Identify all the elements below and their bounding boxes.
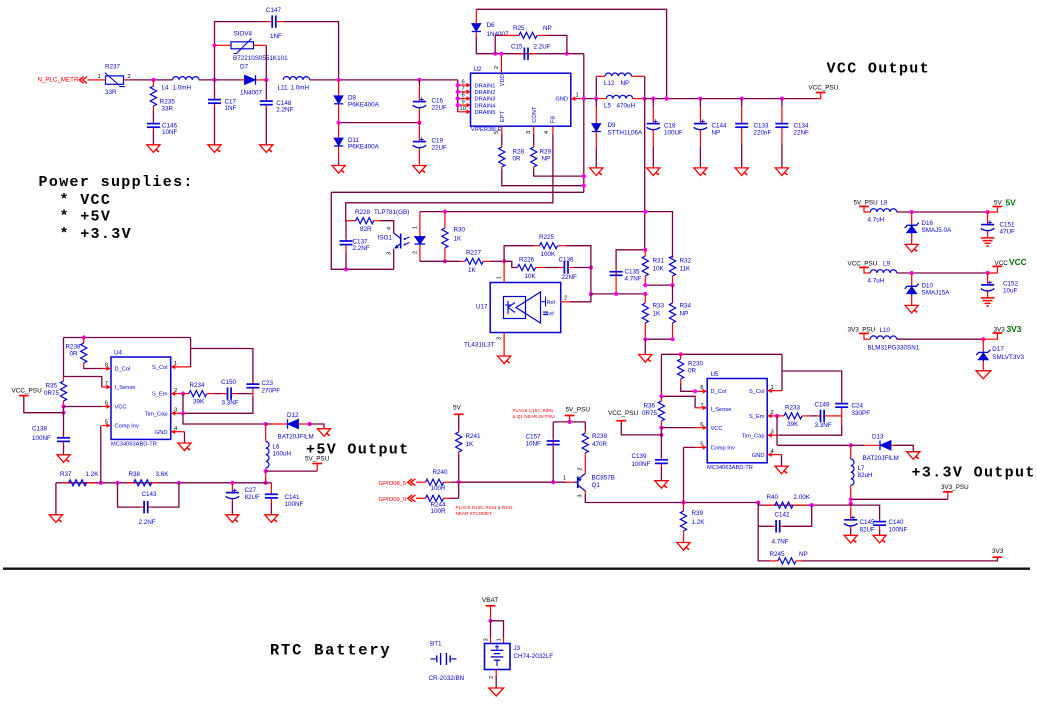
pin arrow S_Col: [171, 365, 175, 370]
capacitor C143: [139, 491, 158, 526]
svg-text:100R: 100R: [431, 508, 447, 515]
svg-text:C23: C23: [262, 380, 274, 387]
wire U5 pin stub: [695, 390, 707, 392]
capacitor C149: [815, 402, 832, 430]
ground (U17): [498, 356, 511, 364]
wire top loop to S_Col U5: [781, 354, 783, 390]
svg-text:0R75: 0R75: [44, 390, 60, 397]
ground (C19): [413, 166, 426, 174]
capacitor C150: [221, 379, 239, 407]
pin arrow U5: [703, 405, 707, 410]
svg-text:B72210S0551K101: B72210S0551K101: [233, 55, 288, 62]
wire R225 left: [504, 246, 534, 262]
wire U17 Ref stub: [561, 301, 570, 303]
svg-text:R233: R233: [785, 405, 801, 412]
resistor R36: [642, 396, 665, 427]
ground (C134): [775, 168, 788, 176]
svg-text:1NF: 1NF: [225, 105, 237, 112]
capacitor C136: [559, 257, 578, 281]
svg-text:GND: GND: [155, 430, 168, 436]
port 3V3_PSU (U5): [943, 491, 953, 493]
svg-text:22NF: 22NF: [562, 274, 578, 281]
wire C152 to ground: [987, 292, 989, 298]
svg-text:NP: NP: [542, 155, 551, 162]
wire C136 to node: [574, 267, 591, 269]
junction D16: [910, 210, 914, 214]
wire C27 to ground: [231, 502, 233, 515]
resistor R240: [416, 469, 450, 492]
svg-text:VCC: VCC: [115, 405, 127, 411]
ground (D16): [905, 244, 918, 252]
svg-text:1: 1: [576, 92, 579, 98]
svg-text:1K: 1K: [653, 311, 662, 318]
svg-text:U2: U2: [474, 66, 483, 73]
svg-text:2.00K: 2.00K: [794, 494, 811, 501]
ground (C152): [981, 298, 995, 306]
wire U5 pin stub: [695, 427, 707, 429]
wire CONT pin stub: [533, 126, 535, 134]
junction C137 bottom: [344, 267, 348, 271]
wire Ref row: [591, 293, 645, 295]
svg-text:1: 1: [563, 476, 566, 482]
port VCC_PSU (L9): [859, 266, 869, 268]
svg-text:VCC: VCC: [711, 426, 723, 432]
junction C142 right: [810, 503, 814, 507]
svg-text:R30: R30: [454, 227, 466, 234]
wire U5 GND down: [781, 455, 783, 467]
svg-text:* +3.3V: * +3.3V: [60, 226, 132, 243]
capacitor C18: [647, 99, 684, 168]
svg-text:R37: R37: [60, 471, 72, 478]
svg-text:1K: 1K: [468, 267, 477, 274]
pin arrow GND U4: [171, 429, 175, 434]
diode D9: [592, 99, 643, 168]
capacitor C140: [873, 519, 907, 534]
wire top loop to S_Col: [190, 338, 192, 367]
junction R33 bottom: [643, 337, 647, 341]
svg-text:U5: U5: [711, 371, 720, 378]
pin arrow U4: [107, 366, 111, 371]
wire to VCC_PSU port U5: [621, 422, 661, 435]
wire DRAIN4 stub: [458, 104, 471, 106]
capacitor C19: [413, 123, 447, 166]
wire C142 right elbow: [784, 505, 812, 526]
junction VCC pin net: [61, 404, 65, 408]
svg-text:R32: R32: [680, 258, 692, 265]
resistor R32: [669, 256, 691, 285]
svg-text:470uH: 470uH: [617, 102, 636, 109]
wire L5 left lead: [596, 98, 606, 100]
svg-text:R36: R36: [644, 403, 656, 410]
resistor R28: [499, 145, 525, 169]
svg-text:GND: GND: [752, 453, 765, 459]
ground (C140): [873, 535, 886, 543]
pin arrow U4: [107, 423, 111, 428]
svg-text:82UF: 82UF: [245, 494, 261, 501]
inductor L7: [851, 459, 873, 485]
junction D10: [910, 271, 914, 275]
svg-text:N_PLC_METR: N_PLC_METR: [38, 76, 79, 83]
svg-text:D17: D17: [992, 346, 1004, 353]
svg-text:220nF: 220nF: [754, 130, 772, 137]
svg-text:Ref: Ref: [547, 300, 556, 306]
svg-text:3: 3: [386, 252, 392, 255]
wire Tim_Cap stub U5: [767, 434, 779, 436]
wire R239 top: [584, 422, 586, 430]
resistor R241: [456, 430, 481, 455]
capacitor C17: [208, 98, 237, 112]
svg-text:R34: R34: [680, 303, 692, 310]
wire to D13/L7 node: [777, 444, 851, 446]
pin arrow Tim_Cap: [171, 411, 175, 416]
svg-text:GPIO08_5: GPIO08_5: [379, 481, 408, 487]
resistor R29: [531, 145, 552, 169]
wire C143 left elbow: [118, 483, 141, 507]
junction anode rail cross: [643, 210, 647, 214]
svg-text:SMAJ5.0A: SMAJ5.0A: [922, 227, 953, 234]
port VCC_PSU (U4): [19, 395, 29, 397]
wire R230 to D_Col: [681, 384, 695, 392]
wire C138 to ground: [63, 445, 65, 455]
svg-text:NP: NP: [799, 551, 808, 558]
svg-text:4.7NF: 4.7NF: [625, 275, 642, 282]
wire C15 row: [476, 37, 584, 54]
wire C139 to ground: [660, 467, 662, 481]
junction drain tap: [456, 103, 460, 107]
port VBAT: [486, 605, 496, 607]
capacitor C144: [694, 99, 727, 168]
pin arrow DRAIN3: [467, 96, 471, 101]
svg-text:& Q1 NEAR 3V PSU: & Q1 NEAR 3V PSU: [513, 414, 555, 419]
svg-text:R227: R227: [466, 250, 482, 257]
wire FB pin stub: [552, 126, 554, 134]
wire R226 to C136: [545, 267, 559, 269]
wire GND node to L5: [584, 98, 597, 100]
capacitor C142: [772, 512, 791, 546]
svg-text:C142: C142: [775, 512, 791, 519]
junction Ref node: [589, 292, 593, 296]
junction C144: [698, 97, 702, 101]
wire 5V_PSU row: [553, 421, 585, 423]
wire left loop to I_Sense U5: [661, 354, 695, 408]
wire C137 to loop: [345, 252, 347, 269]
wire SIOV4 to D7 node: [265, 45, 267, 80]
svg-text:Power supplies:: Power supplies:: [39, 174, 194, 191]
svg-text:3V3_PSU: 3V3_PSU: [848, 326, 876, 333]
svg-text:33R: 33R: [162, 106, 174, 113]
inductor L4: [162, 77, 199, 92]
wire right feedback vertical: [583, 54, 585, 193]
svg-text:0R: 0R: [70, 351, 79, 358]
wire FB horizontal: [331, 191, 584, 193]
svg-text:R31: R31: [653, 258, 665, 265]
wire D12 to ground: [310, 424, 325, 429]
note PLACE R240: [456, 505, 514, 516]
wire U4 top loop: [64, 337, 191, 339]
svg-text:PLACE R240, R244 & R241: PLACE R240, R244 & R241: [456, 505, 514, 510]
svg-text:TL431IL3T: TL431IL3T: [464, 342, 495, 349]
inductor L5: [604, 95, 636, 109]
wire divider mid row: [645, 284, 672, 286]
svg-text:C147: C147: [266, 7, 282, 14]
capacitor C15: [511, 44, 551, 60]
capacitor C148: [260, 99, 294, 113]
wire C24 top elbow: [782, 371, 842, 402]
wire VBAT to J3 pin3: [490, 621, 492, 638]
port 5V: [993, 206, 1003, 208]
svg-text:9: 9: [462, 99, 465, 105]
ground (C146): [147, 145, 160, 153]
svg-text:2.2NF: 2.2NF: [353, 245, 370, 252]
svg-text:R235: R235: [160, 99, 176, 106]
wire CONT pin down: [533, 134, 535, 145]
svg-text:S_Col: S_Col: [749, 389, 765, 395]
wire EPT pin stub: [501, 126, 503, 134]
wire to R245: [758, 526, 770, 561]
resistor R33: [642, 294, 664, 339]
wire R39 to ground: [683, 541, 685, 543]
resistor R31: [642, 250, 664, 285]
svg-text:I_Sense: I_Sense: [115, 385, 136, 391]
capacitor C16: [413, 80, 447, 123]
ground (C138): [57, 455, 70, 463]
resistor R37: [60, 471, 99, 486]
capacitor C152: [981, 273, 1019, 294]
svg-text:D_Col: D_Col: [711, 389, 727, 395]
wire 3V3 output row: [897, 338, 984, 340]
resistor R237 (fusible): [98, 64, 131, 97]
wire to VCC port: [988, 267, 998, 273]
junction D8-D11: [337, 121, 341, 125]
svg-text:3.3NF: 3.3NF: [815, 422, 832, 429]
wire U5 top loop: [661, 353, 782, 355]
svg-text:R25: R25: [513, 25, 525, 32]
wire GND stub U5: [767, 454, 781, 456]
svg-text:C140: C140: [889, 519, 905, 526]
wire C17 to ground: [214, 107, 216, 145]
svg-text:* VCC: * VCC: [60, 192, 112, 209]
diode D12: [266, 412, 314, 441]
port 5V_PSU (U4): [312, 463, 322, 465]
svg-text:BT1: BT1: [430, 640, 442, 647]
ground (D13): [907, 452, 920, 460]
wire VDD pin: [500, 54, 502, 73]
wire Tim_Cap stub: [171, 412, 183, 414]
capacitor C139: [632, 453, 668, 468]
svg-text:VCC_PSU: VCC_PSU: [608, 410, 639, 417]
svg-text:6: 6: [462, 79, 465, 85]
wire C140 to ground: [879, 530, 881, 535]
pin arrow U5: [703, 425, 707, 430]
capacitor C27: [226, 483, 260, 502]
varistor SIOV4: [215, 31, 289, 71]
svg-text:P6KE400A: P6KE400A: [348, 101, 380, 108]
wire C147 to D8 node: [283, 22, 339, 80]
svg-text:C15: C15: [511, 44, 523, 51]
svg-text:BC857B: BC857B: [592, 475, 615, 482]
junction R25 right: [565, 52, 569, 56]
wire Q1 collector to 3V3 fb: [585, 494, 758, 503]
wire R245 to 3V3 port: [802, 558, 997, 561]
wire C141 to ground: [270, 503, 272, 515]
resistor R227: [460, 250, 490, 274]
wire to C140: [851, 505, 880, 520]
wire R244 out: [450, 497, 459, 499]
svg-text:D13: D13: [872, 434, 884, 441]
regulator U17 TL431IL3T: [464, 276, 567, 348]
wire to VCC_PSU port: [24, 396, 64, 412]
svg-text:2.2UF: 2.2UF: [534, 44, 551, 51]
svg-text:R33: R33: [653, 303, 665, 310]
wire VCC output row: [897, 272, 988, 274]
wire to 3V3 port: [983, 334, 997, 339]
svg-text:330PF: 330PF: [852, 410, 871, 417]
svg-text:DRAIN1: DRAIN1: [475, 83, 496, 89]
resistor R238: [66, 338, 87, 368]
svg-text:1N4007: 1N4007: [240, 89, 263, 96]
junction R31 top: [643, 248, 647, 252]
svg-text:100K: 100K: [541, 251, 557, 258]
svg-text:VCC Output: VCC Output: [827, 60, 931, 77]
wire to VCC pin: [64, 406, 102, 408]
svg-text:1K: 1K: [454, 236, 463, 243]
svg-text:22UF: 22UF: [432, 104, 448, 111]
svg-text:C149: C149: [815, 402, 831, 409]
svg-text:33R: 33R: [105, 89, 117, 96]
svg-text:7: 7: [462, 86, 465, 92]
IC U5 MC34063ABD-TR body: [700, 371, 774, 471]
svg-text:C19: C19: [432, 137, 444, 144]
svg-text:5V: 5V: [994, 200, 1003, 207]
wire R238 to D_Col: [84, 368, 102, 369]
resistor R239: [582, 430, 607, 456]
wire to R228 node: [346, 192, 553, 220]
svg-text:L6: L6: [273, 444, 281, 451]
ground (divider): [639, 355, 652, 363]
svg-text:D7: D7: [240, 64, 249, 71]
svg-text:82UF: 82UF: [860, 527, 876, 534]
junction 5V_PSU tie: [264, 469, 268, 473]
svg-text:1.2K: 1.2K: [692, 519, 706, 526]
svg-text:3V3: 3V3: [994, 326, 1006, 333]
junction R230 top: [679, 352, 683, 356]
wire J3 pin2 to ground: [495, 676, 497, 689]
wire L7 bottom lead: [850, 485, 852, 503]
junction VCC_PSU tie: [61, 411, 65, 415]
wire L12 left lead: [596, 75, 605, 77]
wire VCC sense vertical: [644, 99, 646, 250]
svg-text:D_Col: D_Col: [115, 367, 131, 373]
svg-text:BAT20JFILM: BAT20JFILM: [863, 455, 899, 462]
svg-text:0R: 0R: [513, 155, 522, 162]
wire C151 to ground: [987, 232, 989, 238]
wire L6 bottom lead: [265, 468, 267, 483]
inductor L9: [868, 270, 897, 285]
junction C143 left: [115, 481, 119, 485]
junction R29 net: [582, 174, 586, 178]
junction C152: [986, 271, 990, 275]
ground (D11): [332, 166, 345, 174]
svg-text:C157: C157: [526, 434, 542, 441]
svg-text:+5V Output: +5V Output: [306, 442, 410, 459]
svg-text:C18: C18: [664, 122, 676, 129]
svg-text:EPT: EPT: [500, 111, 506, 123]
svg-text:L10: L10: [880, 327, 891, 334]
svg-text:C133: C133: [754, 122, 770, 129]
wire to 3V3_PSU port: [851, 498, 948, 500]
wire GPIO rail to Q1: [459, 481, 566, 483]
pin arrow S_Col U5: [768, 388, 772, 393]
svg-text:1: 1: [497, 276, 503, 279]
svg-text:270PF: 270PF: [262, 388, 281, 395]
wire L12 right riser: [644, 76, 646, 98]
svg-text:2: 2: [128, 74, 131, 80]
svg-text:Comp Inv: Comp Inv: [115, 424, 139, 430]
diode D11: [334, 123, 380, 166]
svg-text:1K: 1K: [466, 441, 475, 448]
ground (C144): [694, 168, 707, 176]
resistor R38: [128, 471, 169, 486]
svg-text:4.7NF: 4.7NF: [772, 539, 789, 546]
ground (R39): [677, 543, 690, 551]
resistor R39: [680, 503, 705, 542]
wire J3 pin3 stub: [490, 638, 492, 644]
svg-text:R230: R230: [688, 361, 704, 368]
wire +5V feedback row: [56, 482, 272, 484]
port 5V_PSU (Q1): [565, 415, 575, 417]
svg-text:MC34063ABD-TR: MC34063ABD-TR: [111, 441, 157, 447]
svg-text:VDD: VDD: [500, 74, 506, 86]
wire C148 to ground: [265, 109, 267, 145]
wire port to L9: [864, 267, 870, 273]
wire down to C139: [660, 428, 662, 458]
inductor L11: [278, 77, 310, 92]
svg-text:R234: R234: [190, 382, 206, 389]
svg-text:L8: L8: [881, 200, 889, 207]
ground (C17): [208, 145, 221, 153]
svg-text:R38: R38: [129, 471, 141, 478]
IC U4 MC34063ABD-TR body: [105, 350, 178, 448]
svg-text:1NF: 1NF: [270, 33, 282, 40]
junction C134: [780, 97, 784, 101]
diode D13: [851, 434, 899, 463]
wire C23 bottom lead: [252, 390, 254, 394]
pin arrow S_Em: [171, 391, 175, 396]
wire S_Em stub: [171, 393, 183, 395]
junction C151: [986, 210, 990, 214]
wire VBAT to J3 pin1: [491, 621, 504, 638]
junction C133: [740, 97, 744, 101]
wire R25 left riser: [494, 35, 496, 53]
port VCC_PSU (top): [816, 92, 826, 94]
capacitor C134: [775, 99, 809, 168]
svg-text:C138: C138: [32, 426, 48, 433]
wire port to L10: [864, 333, 870, 339]
wire R233 to C149: [810, 415, 817, 417]
svg-text:TLP781(GB): TLP781(GB): [374, 209, 409, 216]
diode D6: [472, 9, 509, 38]
wire R29 to right vertical: [534, 169, 584, 176]
wire C150 to C23 node: [238, 393, 253, 395]
pin arrow DRAIN2: [467, 89, 471, 94]
capacitor C135: [610, 268, 642, 282]
capacitor C147: [266, 7, 283, 40]
port 5V: [454, 413, 464, 415]
wire to VCC pin U5: [661, 427, 695, 429]
wire LED anode rail: [420, 212, 673, 258]
svg-text:470R: 470R: [592, 441, 608, 448]
svg-text:5V: 5V: [1006, 197, 1017, 207]
